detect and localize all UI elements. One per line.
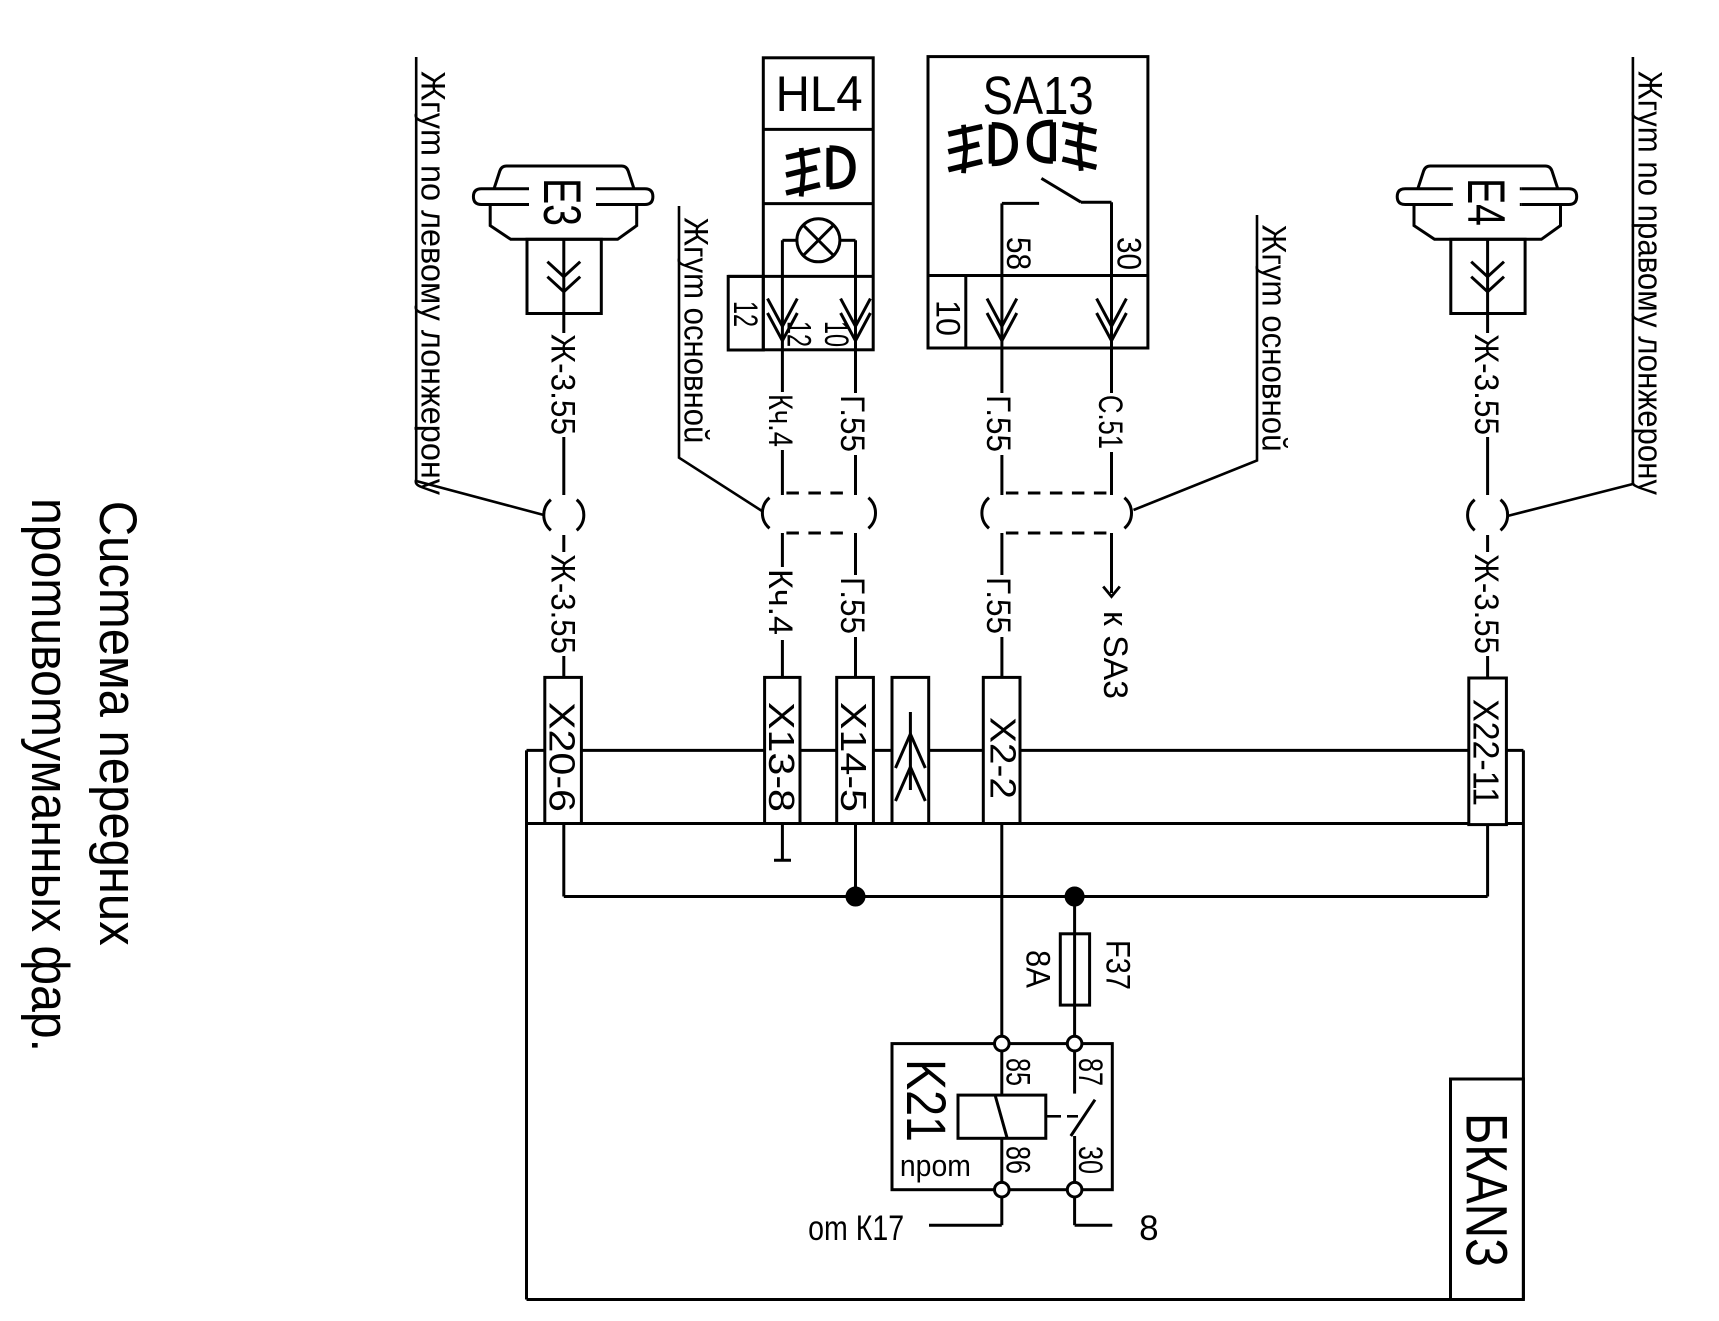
svg-text:X22-11: X22-11	[1465, 699, 1506, 806]
svg-text:Сuсmема nереgнuх: Сuсmема nереgнuх	[88, 501, 147, 946]
svg-text:30: 30	[1071, 1146, 1109, 1174]
connector X14-5	[837, 677, 874, 823]
svg-text:8А: 8А	[1019, 950, 1057, 988]
svg-text:K21: K21	[895, 1059, 958, 1142]
harness line main right	[1134, 215, 1258, 510]
svg-text:87: 87	[1071, 1058, 1109, 1086]
svg-text:F37: F37	[1099, 940, 1137, 990]
svg-text:Ж-3.55: Ж-3.55	[1467, 554, 1505, 654]
internal bus	[562, 824, 565, 897]
fog icon SA13 right	[1030, 122, 1097, 171]
svg-text:Ж-3.55: Ж-3.55	[1467, 334, 1505, 435]
wire С.51 upper	[1110, 350, 1113, 393]
relay K21 box	[892, 1044, 1112, 1190]
wire from K17	[1000, 1197, 1003, 1225]
connector X20-6	[545, 677, 582, 823]
SA13 switch blade	[1041, 178, 1081, 202]
svg-text:X14-5: X14-5	[833, 702, 874, 812]
wire Г.55 HL4 upper	[854, 350, 857, 393]
wire to 8	[1073, 1197, 1076, 1225]
SA13 switch contacts	[1002, 202, 1039, 205]
splice main harness SA13	[982, 498, 989, 529]
svg-text:БКАNЗ: БКАNЗ	[1453, 1113, 1518, 1267]
svg-text:С.51: С.51	[1091, 395, 1129, 449]
wire E3 Ж-3.55 upper	[562, 437, 565, 495]
harness line main left	[679, 206, 762, 511]
block БКАNЗ outline	[527, 749, 1524, 752]
mechanical link	[1046, 1115, 1061, 1118]
svg-text:nроmuвоmуманных фар.: nроmuвоmуманных фар.	[20, 498, 79, 1052]
svg-text:Г.55: Г.55	[979, 395, 1017, 452]
БКАNЗ name box	[1451, 1079, 1524, 1300]
svg-text:Жгуm основноŭ: Жгуm основноŭ	[1255, 225, 1293, 452]
svg-text:Жгуm nо nравому лонжерону: Жгуm nо nравому лонжерону	[1630, 71, 1668, 495]
relay coil	[958, 1095, 1046, 1138]
svg-text:Ж-3.55: Ж-3.55	[543, 334, 581, 435]
svg-text:Кч.4: Кч.4	[761, 394, 799, 447]
wire Кч.4 lower	[781, 533, 784, 567]
svg-text:к SA3: к SA3	[1096, 611, 1134, 699]
wire Кч.4 upper	[781, 350, 784, 392]
svg-text:58: 58	[999, 237, 1037, 270]
SA13 pin chevrons	[987, 299, 1017, 327]
svg-text:nроm: nроm	[900, 1148, 971, 1183]
switch SA13 box	[928, 57, 1148, 348]
splice E4 harness	[1468, 500, 1475, 531]
svg-text:X20-6: X20-6	[541, 702, 582, 812]
svg-text:E4: E4	[1456, 178, 1515, 226]
svg-text:оm К17: оm К17	[808, 1209, 904, 1248]
svg-text:Г.55: Г.55	[979, 577, 1017, 634]
fog lamp E4	[1397, 166, 1577, 333]
fog icon HL4	[786, 148, 853, 197]
fog lamp E3	[473, 166, 653, 333]
lamp unit HL4 box	[763, 58, 873, 350]
X2-2 wire to relay coil	[1000, 824, 1003, 1037]
connector X13-8	[765, 677, 800, 823]
HL4 pin chevrons	[768, 299, 798, 327]
X14-5 wire + junction	[854, 824, 857, 897]
wire E3 Ж-3.55 lower	[562, 535, 565, 552]
HL4 pin sub-box 12	[728, 276, 763, 350]
HL4 lamp wires	[782, 239, 797, 242]
relay pins	[995, 1036, 1010, 1051]
relay contact 87/30	[1073, 1051, 1076, 1094]
fuse F37 8A	[1073, 897, 1076, 1037]
X13-8 stub with end tick	[781, 824, 784, 861]
svg-text:12: 12	[779, 321, 817, 347]
svg-text:10: 10	[928, 300, 966, 336]
svg-text:10: 10	[817, 321, 855, 347]
harness line right frame rail	[1507, 57, 1633, 516]
svg-text:Г.55: Г.55	[833, 395, 871, 452]
svg-text:X13-8: X13-8	[761, 702, 802, 812]
harness line left frame rail	[416, 57, 544, 515]
svg-text:86: 86	[999, 1146, 1037, 1174]
splice main harness HL4	[762, 498, 769, 529]
relay coil wires 85/86	[1000, 1051, 1003, 1095]
svg-text:E3: E3	[532, 178, 591, 226]
svg-text:12: 12	[726, 301, 764, 327]
svg-text:Г.55: Г.55	[833, 577, 871, 634]
wire to SA3 with arrow	[1110, 533, 1113, 593]
connector X22-11	[1469, 678, 1507, 825]
wire Г.55 HL4 lower	[854, 533, 857, 575]
lamp bulb symbol HL4	[797, 219, 840, 262]
svg-text:Жгуm nо левому лонжерону: Жгуm nо левому лонжерону	[414, 71, 452, 495]
svg-text:Кч.4: Кч.4	[761, 569, 799, 635]
wire Г.55 SA13 lower	[1000, 533, 1003, 575]
fog icon SA13 left	[948, 125, 1015, 174]
svg-text:Жгуm основноŭ: Жгуm основноŭ	[677, 217, 715, 443]
wire Г.55 SA13 upper	[1000, 350, 1003, 393]
svg-text:85: 85	[999, 1058, 1037, 1086]
connector X2-2	[983, 677, 1020, 823]
continuation connector (chevrons up)	[892, 677, 929, 823]
svg-text:Ж-3.55: Ж-3.55	[543, 554, 581, 654]
wire E4 Ж-3.55 upper	[1486, 437, 1489, 495]
wire E4 Ж-3.55 lower	[1486, 535, 1489, 552]
svg-text:X2-2: X2-2	[983, 717, 1024, 799]
svg-text:SA13: SA13	[983, 66, 1094, 126]
junction to fuse	[1066, 888, 1083, 905]
svg-text:30: 30	[1110, 237, 1148, 270]
svg-text:8: 8	[1139, 1209, 1158, 1248]
splice E3 harness	[544, 500, 551, 531]
svg-text:HL4: HL4	[776, 66, 863, 122]
